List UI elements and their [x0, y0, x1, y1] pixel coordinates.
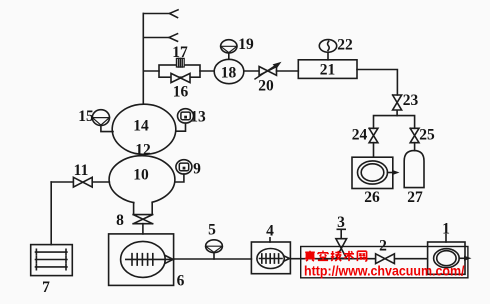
svg-text:26: 26	[364, 189, 380, 206]
svg-text:17: 17	[172, 44, 188, 61]
svg-text:1: 1	[442, 221, 450, 238]
svg-text:6: 6	[177, 273, 185, 290]
svg-text:25: 25	[419, 127, 435, 144]
svg-text:13: 13	[190, 108, 206, 125]
svg-text:24: 24	[352, 127, 368, 144]
svg-text:16: 16	[173, 84, 189, 101]
svg-text:27: 27	[407, 189, 423, 206]
svg-text:9: 9	[193, 160, 201, 177]
svg-text:7: 7	[42, 279, 50, 296]
svg-text:11: 11	[74, 162, 89, 179]
svg-text:18: 18	[221, 65, 237, 82]
svg-text:4: 4	[266, 223, 274, 240]
svg-text:3: 3	[337, 214, 345, 231]
svg-text:12: 12	[135, 142, 151, 159]
svg-text:20: 20	[258, 78, 274, 95]
svg-text:8: 8	[116, 212, 124, 229]
svg-text:22: 22	[337, 37, 353, 54]
svg-text:10: 10	[133, 167, 149, 184]
svg-text:21: 21	[320, 62, 336, 79]
svg-text:http://www.chvacuum.com/: http://www.chvacuum.com/	[304, 263, 465, 279]
svg-text:15: 15	[78, 108, 94, 125]
svg-text:14: 14	[133, 118, 149, 135]
svg-text:19: 19	[238, 36, 254, 53]
svg-text:23: 23	[403, 92, 419, 109]
svg-text:5: 5	[208, 222, 216, 239]
